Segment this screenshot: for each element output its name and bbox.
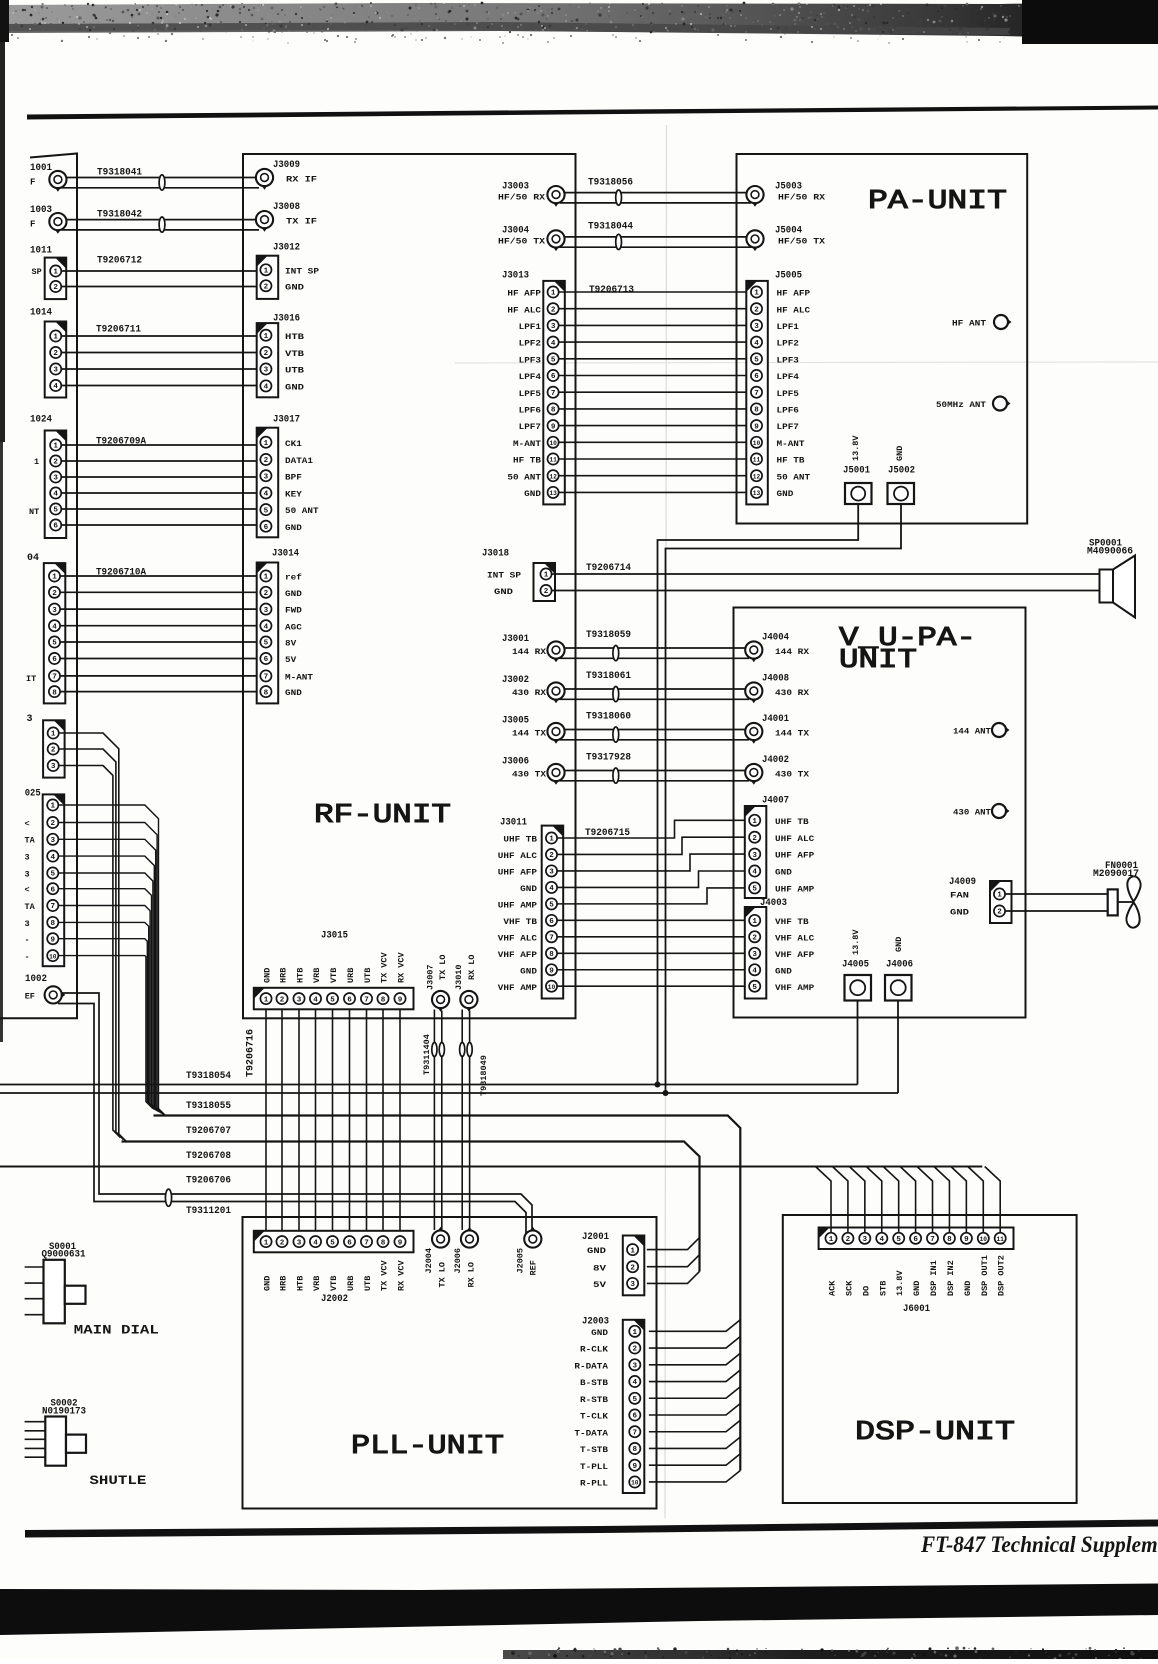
svg-text:PA-UNIT: PA-UNIT	[868, 187, 1007, 217]
svg-text:3: 3	[752, 852, 757, 860]
wire J2003-1	[649, 1320, 740, 1332]
svg-text:10: 10	[548, 984, 556, 991]
wire T9206707	[122, 1142, 700, 1272]
svg-text:9: 9	[51, 936, 56, 944]
wire 025-6 bend down	[58, 889, 158, 1112]
svg-text:GND: GND	[285, 688, 302, 698]
svg-text:T-PLL: T-PLL	[580, 1462, 608, 1472]
svg-text:LPF6: LPF6	[519, 406, 541, 416]
page edge bar left	[0, 0, 9, 1042]
svg-text:5V: 5V	[593, 1280, 607, 1290]
svg-text:50 ANT: 50 ANT	[777, 472, 811, 482]
wire 1014-3	[61, 368, 260, 370]
wire 025-3 bend down	[58, 839, 162, 1114]
svg-text:T9206706: T9206706	[186, 1176, 231, 1187]
svg-text:URB: URB	[346, 968, 356, 983]
cable T9311404	[422, 1034, 432, 1075]
svg-text:1: 1	[264, 440, 269, 448]
svg-text:J3009: J3009	[273, 160, 300, 171]
svg-text:R-STB: R-STB	[580, 1395, 608, 1405]
svg-text:04: 04	[27, 553, 39, 564]
svg-text:2: 2	[549, 852, 554, 860]
svg-text:10: 10	[980, 1236, 988, 1243]
svg-text:J6001: J6001	[903, 1304, 930, 1315]
svg-text:TX VCV: TX VCV	[380, 951, 390, 983]
svg-text:HRB: HRB	[279, 968, 289, 983]
wire J6001-3	[849, 1167, 865, 1233]
connector J3004 HF/50 TX	[498, 226, 565, 252]
wire J3006 to J4002 pair	[560, 768, 749, 783]
svg-text:J2006: J2006	[453, 1248, 463, 1274]
svg-text:T-DATA: T-DATA	[574, 1428, 609, 1438]
svg-text:3: 3	[752, 951, 757, 959]
svg-text:1: 1	[544, 572, 549, 580]
svg-text:J5004: J5004	[775, 226, 802, 237]
connector J3017	[257, 415, 319, 538]
wire 1024-4	[61, 492, 260, 494]
svg-text:DSP OUT2: DSP OUT2	[997, 1255, 1007, 1296]
V_U-PA-UNIT title	[839, 624, 976, 676]
svg-text:LPF1: LPF1	[519, 322, 541, 332]
svg-text:144 RX: 144 RX	[775, 647, 810, 657]
svg-text:10: 10	[49, 953, 57, 960]
wire J3013-12 to J5005	[559, 475, 751, 477]
scan noise band top	[0, 0, 1158, 44]
svg-text:144 TX: 144 TX	[512, 729, 547, 739]
svg-text:1: 1	[997, 892, 1002, 900]
svg-text:J5005: J5005	[775, 271, 802, 282]
wire 025-8 bend down	[58, 922, 155, 1110]
svg-text:T9318055: T9318055	[186, 1101, 231, 1112]
cable T9206710A	[96, 568, 146, 579]
svg-text:J3013: J3013	[502, 271, 529, 282]
svg-text:GND: GND	[775, 966, 792, 976]
svg-text:GND: GND	[524, 489, 541, 499]
svg-text:144 RX: 144 RX	[512, 647, 547, 657]
svg-text:T9318054: T9318054	[186, 1071, 231, 1082]
svg-text:DSP-UNIT: DSP-UNIT	[855, 1418, 1015, 1448]
svg-text:GND: GND	[775, 868, 792, 878]
svg-text:2: 2	[264, 590, 269, 598]
wire J3015-8 to J2002	[382, 1009, 384, 1231]
svg-text:CK1: CK1	[285, 439, 302, 449]
wire 025-4 bend down	[58, 856, 161, 1113]
svg-text:INT SP: INT SP	[285, 266, 319, 276]
svg-text:7: 7	[364, 1239, 369, 1247]
wire J6001-5	[883, 1167, 899, 1233]
svg-text:8V: 8V	[285, 639, 297, 649]
svg-text:3: 3	[52, 607, 57, 615]
wire 3-2 bend down	[59, 749, 124, 1140]
connector J3018	[482, 549, 555, 602]
wire 025-10 bend down	[58, 956, 152, 1109]
svg-text:J3006: J3006	[502, 757, 529, 768]
svg-text:T9206708: T9206708	[186, 1151, 231, 1162]
svg-text:J2005: J2005	[515, 1248, 525, 1274]
svg-text:INT SP: INT SP	[487, 571, 521, 581]
svg-text:6: 6	[264, 524, 269, 532]
connector J4003	[745, 898, 814, 999]
svg-text:3: 3	[264, 473, 269, 481]
wire 025-5 bend down	[58, 873, 159, 1112]
svg-text:4: 4	[551, 340, 556, 348]
svg-text:1014: 1014	[30, 308, 52, 319]
connector J2003	[574, 1317, 644, 1494]
svg-text:SP: SP	[32, 267, 42, 277]
svg-text:GND: GND	[285, 523, 302, 533]
connector J3002 430 RX	[502, 675, 565, 703]
DSP-UNIT box	[783, 1215, 1077, 1503]
wire J3011-4 to J4007-4	[557, 871, 746, 887]
svg-text:HF/50 RX: HF/50 RX	[778, 192, 826, 202]
wire J3011-9 to J4003-4	[557, 969, 746, 971]
svg-text:9: 9	[398, 1239, 403, 1247]
svg-text:10: 10	[549, 440, 557, 447]
svg-text:1: 1	[752, 818, 757, 826]
svg-text:7: 7	[364, 996, 369, 1004]
svg-text:J2001: J2001	[582, 1232, 609, 1243]
svg-text:T9206713: T9206713	[589, 285, 634, 296]
wire J6001-2	[832, 1167, 848, 1233]
svg-text:HF AFP: HF AFP	[777, 289, 811, 299]
wire 04-2	[60, 591, 258, 593]
connector 1014	[30, 308, 66, 398]
svg-text:VTB: VTB	[329, 968, 339, 983]
svg-text:1011: 1011	[30, 246, 52, 257]
svg-text:4: 4	[880, 1236, 885, 1244]
svg-text:HTB: HTB	[296, 1276, 306, 1291]
svg-text:3: 3	[264, 367, 269, 375]
svg-text:144 TX: 144 TX	[775, 729, 810, 739]
svg-text:1: 1	[630, 1247, 635, 1255]
wire 1024-3	[61, 476, 260, 478]
svg-text:5: 5	[330, 996, 335, 1004]
top rule	[27, 106, 1158, 120]
svg-text:SCK: SCK	[844, 1280, 854, 1296]
wire J3018-1 to speaker	[552, 573, 1100, 575]
svg-text:HF/50 TX: HF/50 TX	[498, 237, 546, 247]
wire J2001-1	[647, 1238, 700, 1250]
HF ANT jack	[952, 315, 1012, 329]
svg-text:J3002: J3002	[502, 675, 529, 686]
svg-text:13: 13	[549, 490, 557, 497]
svg-text:T9206714: T9206714	[586, 563, 631, 574]
connector J4006 GND	[885, 937, 913, 1001]
svg-text:1: 1	[53, 269, 58, 277]
connector J3012	[257, 243, 319, 299]
svg-text:J3001: J3001	[502, 634, 529, 645]
svg-text:2: 2	[280, 1239, 285, 1247]
svg-text:T-CLK: T-CLK	[580, 1412, 609, 1422]
svg-text:9: 9	[549, 968, 554, 976]
svg-text:J2004: J2004	[424, 1248, 434, 1274]
cable T9206707 label	[186, 1126, 231, 1137]
cable T9206711	[96, 325, 141, 336]
svg-text:HF ANT: HF ANT	[952, 319, 986, 329]
svg-text:HF/50 RX: HF/50 RX	[498, 192, 546, 202]
wire J3013-4 to J5005	[559, 341, 751, 343]
svg-text:J3007: J3007	[426, 964, 436, 990]
svg-text:4: 4	[313, 996, 318, 1004]
svg-text:RX VCV: RX VCV	[397, 1259, 407, 1291]
svg-text:4: 4	[264, 491, 269, 499]
svg-text:12: 12	[549, 473, 557, 480]
wire J3013-13 to J5005	[559, 491, 751, 493]
svg-text:3: 3	[264, 607, 269, 615]
svg-text:50MHz ANT: 50MHz ANT	[936, 400, 986, 410]
svg-text:LPF5: LPF5	[519, 389, 541, 399]
svg-text:4: 4	[264, 384, 269, 392]
svg-text:T9318056: T9318056	[588, 177, 633, 188]
svg-text:LPF1: LPF1	[777, 322, 799, 332]
svg-text:STB: STB	[878, 1281, 888, 1296]
svg-text:M4090066: M4090066	[1087, 547, 1133, 558]
wire J6001-10	[968, 1167, 984, 1233]
svg-text:6: 6	[633, 1413, 638, 1421]
svg-text:R-DATA: R-DATA	[574, 1361, 609, 1371]
svg-text:430 TX: 430 TX	[775, 770, 810, 780]
wire J3011-3 to J4007-3	[557, 854, 746, 871]
svg-text:J3012: J3012	[273, 243, 300, 254]
svg-text:8: 8	[51, 920, 56, 928]
cable T9318060	[586, 712, 631, 723]
svg-text:VTB: VTB	[329, 1276, 339, 1291]
svg-text:J3010: J3010	[454, 964, 464, 990]
svg-text:T9318049: T9318049	[479, 1055, 489, 1096]
wire J3013-1 to J5005	[559, 291, 751, 293]
svg-text:11: 11	[753, 457, 761, 464]
svg-text:GND: GND	[895, 446, 905, 461]
svg-text:13: 13	[753, 490, 761, 497]
wire J4009-2 to fan	[1005, 910, 1108, 912]
svg-text:7: 7	[754, 390, 759, 398]
svg-text:J3008: J3008	[273, 202, 300, 213]
svg-text:5: 5	[752, 886, 757, 894]
svg-text:UNIT: UNIT	[839, 646, 917, 676]
svg-text:TX VCV: TX VCV	[380, 1259, 390, 1291]
svg-text:VHF ALC: VHF ALC	[775, 933, 814, 943]
svg-text:UHF ALC: UHF ALC	[498, 851, 537, 861]
svg-text:5: 5	[53, 507, 58, 515]
wire 04-3	[60, 608, 258, 610]
svg-text:LPF3: LPF3	[519, 355, 541, 365]
connector J4002 430 TX	[745, 755, 810, 785]
svg-text:13.8V: 13.8V	[895, 1270, 905, 1296]
junction 13.8V	[655, 1082, 661, 1088]
svg-text:VTB: VTB	[285, 349, 304, 359]
svg-text:GND: GND	[285, 283, 304, 293]
wire 1014-4	[61, 385, 260, 387]
connector J3010 RX LO	[454, 954, 477, 1011]
wire J3013-5 to J5005	[559, 358, 751, 360]
svg-text:GND: GND	[263, 968, 273, 983]
svg-text:GND: GND	[285, 382, 304, 392]
wire J3011-2 to J4007-2	[557, 837, 746, 854]
cable T9206708 label	[186, 1151, 231, 1162]
svg-text:J3017: J3017	[273, 415, 300, 426]
svg-text:TX LO: TX LO	[438, 954, 448, 980]
svg-text:T9206712: T9206712	[97, 256, 142, 267]
svg-text:T9206711: T9206711	[96, 325, 141, 336]
wire J6001-7	[917, 1167, 933, 1233]
wire J3015-1 to J2002	[265, 1009, 267, 1231]
svg-text:7: 7	[549, 935, 554, 943]
svg-text:DATA1: DATA1	[285, 456, 313, 466]
svg-text:2: 2	[752, 835, 757, 843]
svg-text:2: 2	[630, 1264, 635, 1272]
svg-text:6: 6	[913, 1236, 918, 1244]
wire 025-9 bend down	[58, 939, 154, 1110]
connector 1011 (SP)	[30, 246, 66, 300]
svg-text:11: 11	[996, 1236, 1004, 1243]
svg-text:DO: DO	[861, 1286, 871, 1296]
svg-text:2: 2	[264, 457, 269, 465]
svg-text:VHF AMP: VHF AMP	[498, 983, 537, 993]
svg-text:J3018: J3018	[482, 549, 509, 560]
svg-text:T9318059: T9318059	[586, 630, 631, 641]
svg-text:VHF AFP: VHF AFP	[498, 950, 537, 960]
wire to J4005	[857, 1001, 859, 1085]
wire 025-7 bend down	[58, 906, 157, 1111]
svg-text:2: 2	[846, 1236, 851, 1244]
svg-text:6: 6	[51, 886, 56, 894]
svg-text:EF: EF	[25, 992, 35, 1002]
svg-text:5: 5	[754, 357, 759, 365]
connector J4005 13.8V	[842, 929, 871, 1001]
svg-text:1: 1	[264, 1239, 269, 1247]
svg-text:5: 5	[752, 984, 757, 992]
connector J3013	[502, 271, 565, 505]
svg-text:4: 4	[752, 968, 757, 976]
svg-text:1: 1	[53, 334, 58, 342]
wire J3011-8 to J4003-3	[557, 952, 746, 954]
svg-text:HF ALC: HF ALC	[777, 305, 811, 315]
wire J3011-10 to J4003-5	[557, 985, 746, 987]
svg-text:J3015: J3015	[321, 931, 348, 942]
cable T9206716	[246, 1029, 257, 1077]
connector J4004 144 RX	[745, 633, 810, 663]
cable T9318042	[97, 210, 142, 221]
svg-text:J2002: J2002	[321, 1294, 348, 1305]
svg-text:UHF TB: UHF TB	[503, 835, 537, 845]
svg-text:DSP IN2: DSP IN2	[946, 1260, 956, 1296]
svg-text:LPF7: LPF7	[777, 422, 799, 432]
V_U-PA-UNIT box	[734, 608, 1026, 1018]
svg-text:LPF3: LPF3	[777, 355, 799, 365]
wire REF shield	[58, 1004, 526, 1234]
connector 3 (cut)	[27, 714, 65, 778]
svg-text:50 ANT: 50 ANT	[285, 506, 319, 516]
bottom rule	[25, 1520, 1158, 1538]
wire to J4006	[897, 1001, 899, 1094]
wire J3011-6 to J4003-1	[557, 919, 746, 921]
svg-text:LPF4: LPF4	[777, 372, 799, 382]
svg-text:1: 1	[264, 574, 269, 582]
svg-text:T9318044: T9318044	[588, 222, 633, 233]
svg-text:LPF7: LPF7	[519, 422, 541, 432]
svg-text:12: 12	[753, 473, 761, 480]
cable T9206715	[585, 828, 630, 839]
svg-text:LPF2: LPF2	[777, 339, 799, 349]
svg-text:LPF5: LPF5	[777, 389, 799, 399]
svg-text:T9318060: T9318060	[586, 712, 631, 723]
svg-text:TA: TA	[25, 902, 36, 912]
svg-text:3: 3	[25, 869, 30, 879]
svg-text:8: 8	[549, 951, 554, 959]
svg-text:J2003: J2003	[582, 1317, 609, 1328]
bottom black bar	[0, 1584, 1158, 1636]
svg-text:FAN: FAN	[950, 891, 969, 901]
connector J1002 REF	[25, 974, 66, 1004]
svg-text:4: 4	[53, 383, 58, 391]
svg-text:J5001: J5001	[843, 466, 870, 477]
svg-text:5: 5	[896, 1236, 901, 1244]
connector J3001 144 RX	[502, 634, 565, 662]
svg-text:3: 3	[863, 1236, 868, 1244]
wire TX LO pair	[432, 1010, 445, 1231]
wire J2001-2	[647, 1255, 700, 1267]
wire 04-4	[60, 625, 258, 627]
connector J2005 REF	[515, 1227, 541, 1276]
svg-text:8: 8	[381, 996, 386, 1004]
scan crease vertical	[665, 125, 667, 1518]
wire J6001-6	[900, 1167, 916, 1233]
svg-text:J4008: J4008	[762, 674, 789, 685]
svg-text:7: 7	[51, 903, 56, 911]
svg-text:J3014: J3014	[272, 549, 299, 560]
svg-text:UHF AFP: UHF AFP	[775, 851, 814, 861]
svg-text:BPF: BPF	[285, 472, 302, 482]
svg-text:1: 1	[264, 333, 269, 341]
svg-text:13.8V: 13.8V	[851, 929, 861, 955]
wire J3003 to J5003 pair	[560, 190, 751, 205]
wire J3015-2 to J2002	[281, 1009, 283, 1231]
connector J4007	[745, 796, 814, 899]
cable T9318054 label	[186, 1071, 231, 1082]
svg-text:2: 2	[52, 590, 57, 598]
wire J2001-3	[647, 1271, 700, 1283]
svg-text:DSP IN1: DSP IN1	[929, 1260, 939, 1296]
svg-text:5: 5	[264, 640, 269, 648]
svg-text:HF AFP: HF AFP	[507, 289, 541, 299]
cable T9318044	[588, 222, 633, 233]
svg-text:J5003: J5003	[775, 181, 802, 192]
svg-text:6: 6	[53, 523, 58, 531]
wire J6001-11	[985, 1167, 1001, 1233]
svg-text:GND: GND	[263, 1276, 273, 1291]
wire J2003-10	[649, 1470, 740, 1482]
svg-text:UHF ALC: UHF ALC	[775, 834, 814, 844]
svg-text:4: 4	[752, 869, 757, 877]
svg-text:DSP OUT1: DSP OUT1	[980, 1255, 990, 1296]
cable T9318055 label	[186, 1101, 231, 1112]
svg-text:2: 2	[544, 588, 549, 596]
svg-text:3: 3	[25, 853, 30, 863]
wire 025-1 bend down	[58, 805, 165, 1116]
svg-text:4: 4	[52, 623, 57, 631]
svg-text:6: 6	[551, 373, 556, 381]
connector J3007 TX LO	[426, 954, 450, 1011]
svg-text:GND: GND	[894, 937, 904, 952]
svg-text:2: 2	[754, 306, 759, 314]
svg-text:5: 5	[633, 1396, 638, 1404]
svg-text:3: 3	[551, 323, 556, 331]
svg-text:J4005: J4005	[842, 960, 869, 971]
svg-text:3: 3	[27, 714, 33, 725]
svg-text:3: 3	[630, 1281, 635, 1289]
wire J3013-10 to J5005	[559, 441, 751, 443]
wire J3015-3 to J2002	[298, 1009, 300, 1231]
